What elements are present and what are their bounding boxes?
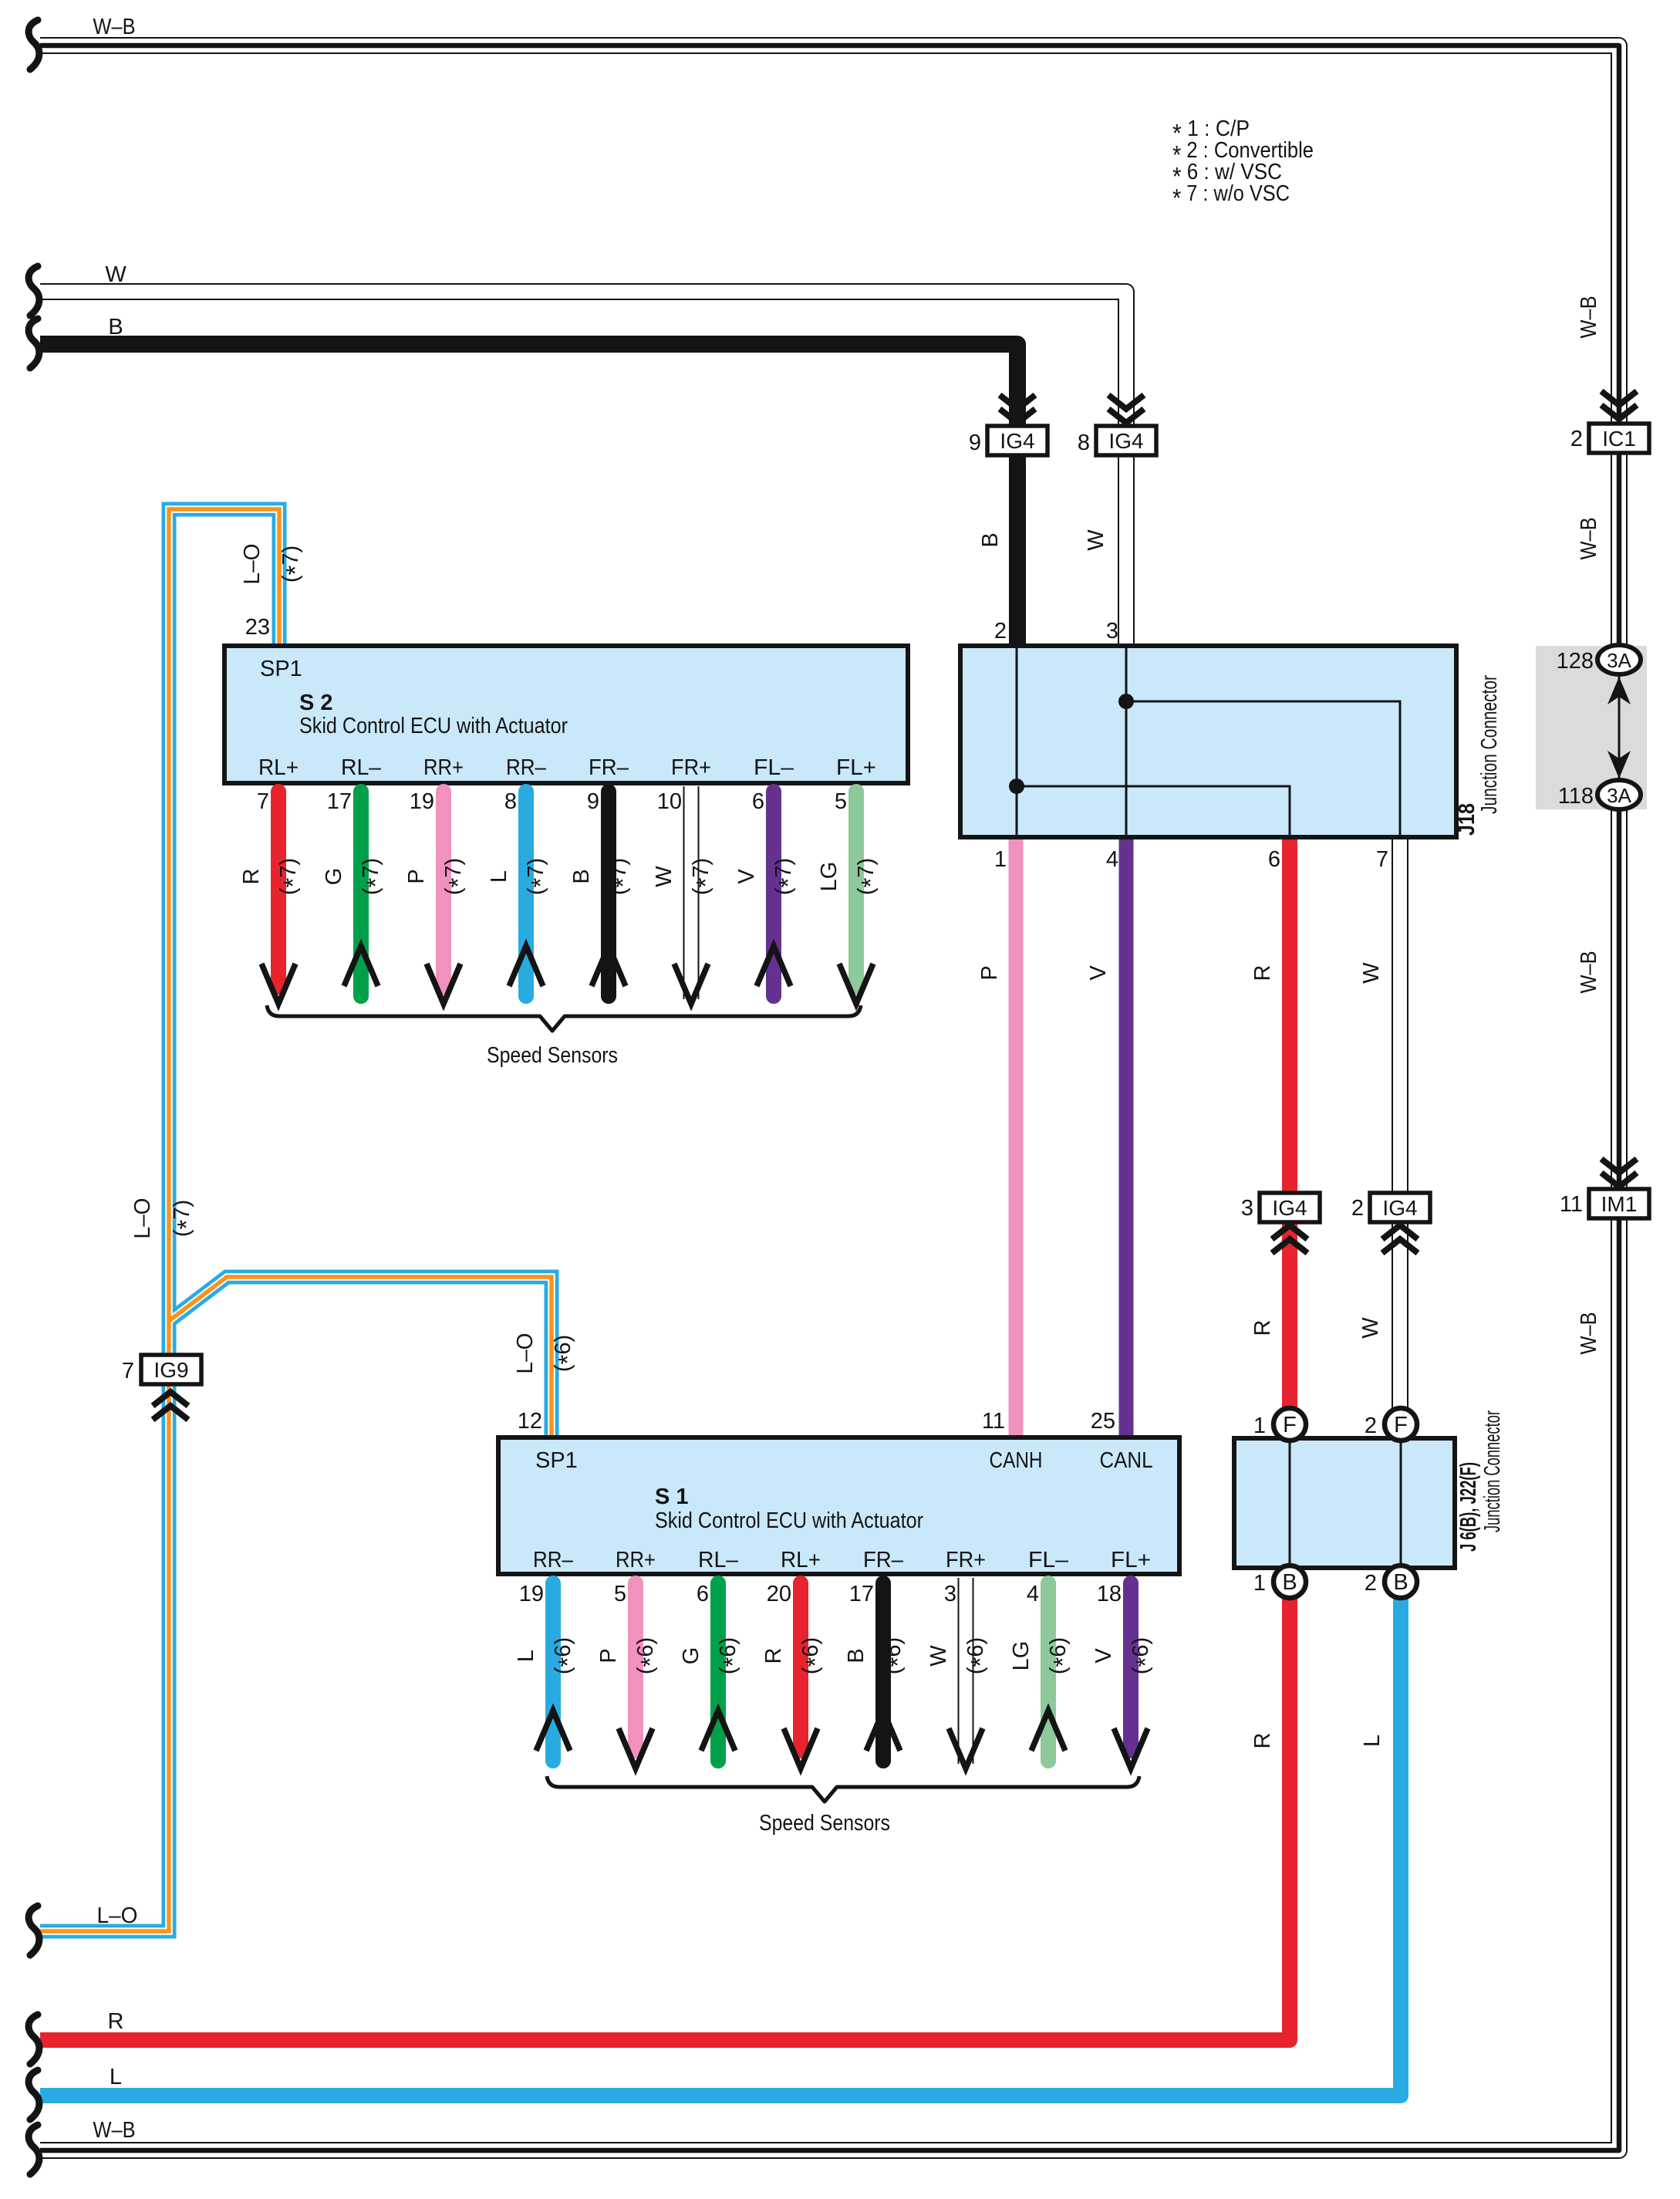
svg-text:3: 3 — [1241, 1196, 1253, 1221]
svg-text:IG4: IG4 — [1108, 429, 1143, 453]
svg-text:4: 4 — [1106, 847, 1118, 872]
svg-text:18: 18 — [1097, 1582, 1122, 1606]
svg-text:IG4: IG4 — [1272, 1196, 1307, 1220]
svg-text:W–B: W–B — [1577, 296, 1601, 339]
svg-text:7: 7 — [122, 1359, 134, 1383]
svg-text:B: B — [1393, 1570, 1408, 1595]
svg-text:RL–: RL– — [698, 1548, 739, 1572]
svg-text:17: 17 — [327, 789, 352, 814]
svg-text:118: 118 — [1558, 784, 1594, 809]
svg-text:W–B: W–B — [1577, 1312, 1601, 1355]
svg-text:9: 9 — [969, 431, 981, 455]
svg-text:3A: 3A — [1607, 649, 1631, 672]
svg-text:W: W — [652, 866, 676, 887]
svg-text:IG9: IG9 — [153, 1358, 188, 1382]
svg-text:IM1: IM1 — [1601, 1192, 1638, 1216]
svg-text:B: B — [1282, 1570, 1297, 1595]
svg-text:23: 23 — [245, 615, 270, 640]
svg-text:W: W — [1084, 529, 1108, 551]
svg-text:2: 2 — [1351, 1196, 1364, 1221]
svg-text:B: B — [108, 315, 123, 339]
svg-text:12: 12 — [518, 1409, 542, 1434]
svg-text:FL–: FL– — [754, 755, 794, 780]
svg-text:L: L — [1360, 1735, 1385, 1747]
svg-text:Speed Sensors: Speed Sensors — [487, 1043, 618, 1068]
svg-text:FR–: FR– — [589, 755, 629, 780]
svg-text:IG4: IG4 — [1382, 1196, 1417, 1220]
svg-text:17: 17 — [849, 1582, 874, 1606]
svg-text:W: W — [1358, 1317, 1383, 1339]
svg-text:11: 11 — [982, 1409, 1005, 1434]
svg-text:L: L — [487, 870, 511, 883]
svg-text:F: F — [1283, 1413, 1297, 1437]
svg-text:9: 9 — [587, 789, 599, 814]
svg-text:S 1: S 1 — [655, 1485, 689, 1509]
svg-text:RL–: RL– — [341, 755, 382, 780]
svg-text:Skid Control ECU with Actuator: Skid Control ECU with Actuator — [299, 714, 568, 738]
svg-text:P: P — [404, 869, 429, 883]
svg-text:L–O: L–O — [130, 1198, 155, 1239]
svg-text:J 6(B), J22(F): J 6(B), J22(F) — [1456, 1462, 1481, 1552]
svg-text:FL+: FL+ — [836, 755, 876, 780]
svg-text:1: 1 — [994, 847, 1007, 872]
svg-text:R: R — [239, 869, 264, 885]
svg-text:V: V — [1091, 1648, 1116, 1664]
svg-text:L: L — [514, 1650, 538, 1662]
svg-text:Skid Control ECU with Actuator: Skid Control ECU with Actuator — [655, 1508, 923, 1533]
svg-text:10: 10 — [657, 789, 682, 814]
svg-text:B: B — [844, 1648, 869, 1663]
svg-text:25: 25 — [1091, 1409, 1115, 1434]
svg-text:5: 5 — [614, 1582, 626, 1606]
svg-text:SP1: SP1 — [535, 1448, 578, 1473]
svg-text:IG4: IG4 — [1000, 429, 1034, 453]
svg-text:L: L — [110, 2065, 122, 2089]
svg-text:R: R — [1250, 1320, 1275, 1336]
svg-text:SP1: SP1 — [260, 657, 302, 681]
svg-text:RL+: RL+ — [258, 755, 299, 780]
svg-text:FR+: FR+ — [671, 755, 711, 780]
svg-text:W–B: W–B — [1577, 518, 1601, 560]
svg-text:1: 1 — [1253, 1414, 1266, 1438]
svg-text:W: W — [105, 262, 127, 287]
svg-text:3A: 3A — [1607, 784, 1631, 807]
svg-text:2: 2 — [994, 619, 1007, 643]
svg-text:S 2: S 2 — [299, 691, 333, 715]
svg-text:RR–: RR– — [506, 755, 547, 780]
svg-text:L–O: L–O — [97, 1903, 138, 1928]
svg-text:5: 5 — [835, 789, 847, 814]
svg-text:P: P — [977, 965, 1002, 980]
svg-text:RR+: RR+ — [423, 755, 464, 780]
svg-text:G: G — [322, 868, 346, 886]
svg-text:L–O: L–O — [513, 1333, 538, 1374]
svg-text:W–B: W–B — [93, 2118, 136, 2143]
svg-text:2: 2 — [1570, 427, 1583, 451]
svg-text:R: R — [108, 2009, 124, 2034]
svg-text:F: F — [1394, 1413, 1408, 1437]
svg-text:R: R — [761, 1648, 786, 1664]
svg-text:6: 6 — [1268, 847, 1280, 872]
svg-text:Junction Connector: Junction Connector — [1480, 1410, 1505, 1532]
svg-text:IC1: IC1 — [1602, 427, 1636, 451]
svg-text:FL+: FL+ — [1111, 1548, 1151, 1572]
svg-text:RR–: RR– — [533, 1548, 574, 1572]
svg-text:CANL: CANL — [1100, 1448, 1153, 1473]
svg-text:B: B — [978, 532, 1003, 547]
svg-text:J18: J18 — [1455, 803, 1479, 836]
svg-text:19: 19 — [410, 789, 434, 814]
svg-text:V: V — [734, 869, 759, 884]
svg-text:P: P — [596, 1648, 621, 1663]
svg-text:7: 7 — [257, 789, 269, 814]
svg-text:FR+: FR+ — [946, 1548, 986, 1572]
svg-text:W: W — [926, 1645, 951, 1667]
svg-text:19: 19 — [519, 1582, 544, 1606]
svg-text:7: 7 — [1376, 847, 1388, 872]
svg-text:RL+: RL+ — [781, 1548, 821, 1572]
svg-text:128: 128 — [1557, 649, 1594, 674]
svg-text:CANH: CANH — [990, 1448, 1043, 1473]
svg-text:2: 2 — [1365, 1571, 1377, 1596]
svg-text:LG: LG — [1009, 1641, 1034, 1671]
svg-text:6: 6 — [752, 789, 764, 814]
svg-text:11: 11 — [1560, 1192, 1583, 1217]
svg-text:V: V — [1086, 965, 1111, 981]
svg-text:RR+: RR+ — [616, 1548, 656, 1572]
svg-text:R: R — [1250, 965, 1275, 981]
svg-text:Speed Sensors: Speed Sensors — [759, 1811, 890, 1836]
svg-text:LG: LG — [817, 862, 842, 892]
svg-text:4: 4 — [1027, 1582, 1039, 1606]
svg-text:FL–: FL– — [1028, 1548, 1069, 1572]
svg-text:6: 6 — [697, 1582, 709, 1606]
svg-text:2: 2 — [1365, 1414, 1377, 1438]
svg-text:W–B: W–B — [1577, 951, 1601, 994]
svg-text:3: 3 — [1106, 619, 1118, 643]
svg-text:W: W — [1359, 962, 1384, 984]
svg-text:R: R — [1250, 1733, 1275, 1749]
svg-text:8: 8 — [504, 789, 517, 814]
svg-text:L–O: L–O — [240, 544, 265, 585]
svg-text:B: B — [569, 869, 594, 883]
svg-text:W–B: W–B — [93, 15, 136, 39]
svg-text:1: 1 — [1253, 1571, 1266, 1596]
svg-text:G: G — [679, 1647, 703, 1665]
svg-text:FR–: FR– — [863, 1548, 904, 1572]
svg-text:20: 20 — [767, 1582, 791, 1606]
svg-text:Junction Connector: Junction Connector — [1477, 675, 1502, 814]
svg-text:3: 3 — [944, 1582, 956, 1606]
svg-text:8: 8 — [1078, 431, 1090, 455]
